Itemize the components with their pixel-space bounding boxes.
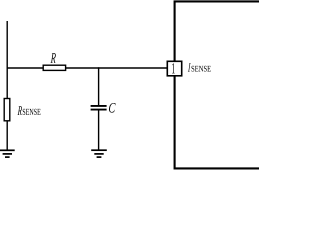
label C — [109, 103, 116, 113]
wire capacitor branch top — [98, 67, 100, 106]
label R — [51, 53, 56, 63]
wire capacitor branch bottom — [98, 110, 100, 151]
label R_SENSE — [18, 106, 41, 115]
label I_SENSE — [188, 63, 211, 71]
capacitor C plates — [91, 106, 107, 110]
pin number 1 — [172, 63, 175, 73]
wire horizontal main — [7, 67, 168, 69]
ground (below capacitor) — [91, 150, 107, 157]
wire left vertical — [6, 21, 8, 150]
op-amp U1 IC outline — [175, 1, 259, 168]
ground (below R_SENSE) — [0, 150, 15, 157]
pin 1 box — [167, 61, 181, 76]
resistor R — [43, 65, 65, 70]
resistor R_SENSE — [4, 99, 10, 121]
